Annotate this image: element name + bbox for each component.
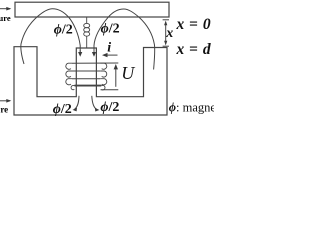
- svg-text:ϕ/2: ϕ/2: [101, 22, 120, 37]
- bottom flux split arrow right: [92, 96, 97, 109]
- coil bottom turn (bold): [75, 85, 102, 87]
- svg-text:ore: ore: [0, 105, 8, 115]
- armature pointer arrow: [0, 8, 10, 10]
- svg-text:ϕ/2: ϕ/2: [53, 102, 72, 117]
- arrowhead: flux into pole left: [78, 52, 82, 57]
- svg-text:ϕ/2: ϕ/2: [54, 23, 73, 38]
- coil turn front wires: [72, 70, 100, 72]
- core (E-shaped yoke): [14, 47, 167, 115]
- arrowhead: voltage U: [114, 64, 118, 69]
- arrowhead: flux into pole right: [92, 52, 96, 57]
- svg-text:x = d: x = d: [176, 41, 212, 58]
- coil right loop bulges: [100, 63, 106, 69]
- voltage arrow U: [115, 67, 117, 87]
- flux down-arrow right into center pole: [93, 50, 95, 53]
- svg-text:U: U: [121, 63, 135, 83]
- arrowhead: core pointer: [6, 99, 11, 103]
- svg-text:x: x: [165, 26, 173, 41]
- flux down-arrow left into center pole: [79, 50, 81, 53]
- flux line right arc: [94, 9, 155, 70]
- arrowhead: current i: [102, 53, 108, 57]
- gap bracket shaft: [165, 23, 167, 44]
- svg-text:ure: ure: [0, 13, 11, 23]
- svg-text:ϕ/2: ϕ/2: [100, 100, 119, 115]
- spring hanging from armature: [86, 17, 88, 23]
- arrowhead: bottom left flux: [73, 108, 78, 112]
- bottom flux split arrow left: [75, 96, 79, 109]
- svg-text:ϕ: magnetic: ϕ: magnetic: [169, 101, 214, 115]
- gap bracket ticks: [163, 19, 169, 21]
- core pointer arrow: [0, 100, 10, 102]
- svg-text:x = 0: x = 0: [176, 16, 212, 33]
- wire: coil bottom terminal: [101, 89, 119, 91]
- arrowhead: bottom right flux: [95, 108, 100, 112]
- flux line left arc: [21, 9, 80, 64]
- armature bar: [15, 2, 169, 17]
- svg-text:i: i: [107, 41, 111, 56]
- wire: coil top terminal (= top turn): [72, 62, 118, 64]
- coil left loop bulges: [66, 63, 72, 69]
- arrowhead: bracket up: [164, 21, 167, 26]
- arrowhead: armature pointer: [6, 7, 11, 11]
- current arrow i: [104, 54, 118, 56]
- arrowhead: bracket down: [164, 41, 167, 46]
